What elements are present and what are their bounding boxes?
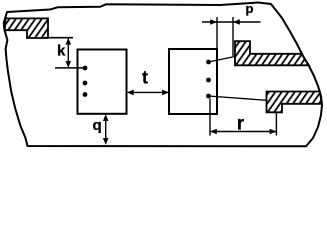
k leader line to pad dot <box>55 67 86 69</box>
leader from right pad bottom dot to lower land <box>209 96 268 100</box>
r right extension line <box>275 113 277 136</box>
left pad box <box>78 50 127 114</box>
p right extension line <box>232 17 234 56</box>
top-left hatched land (section) <box>5 18 48 38</box>
dimension t arrow line <box>128 91 168 93</box>
dimension q arrow line <box>105 116 107 144</box>
svg-text:t: t <box>142 68 148 88</box>
k arrowhead down <box>66 61 72 68</box>
r arrowhead right <box>270 129 277 135</box>
svg-text:p: p <box>246 1 254 16</box>
p arrowhead pointing right <box>210 19 217 25</box>
left pad dot 1 <box>83 66 88 71</box>
right pad box <box>169 49 217 114</box>
right pad dot 3 <box>206 94 211 99</box>
upper-right hatched land (section) <box>235 41 309 65</box>
left pad dot 3 <box>83 92 88 97</box>
k arrowhead up <box>66 38 72 45</box>
leader from right pad top dot to land <box>209 56 237 62</box>
dimension p line <box>202 21 261 23</box>
left pad dot 2 <box>83 81 88 86</box>
dimension r line <box>210 131 276 133</box>
right pad dot 2 <box>206 78 211 83</box>
p left extension line (box edge extended up) <box>216 17 218 49</box>
right pad dot 1 <box>206 60 211 65</box>
q arrowhead up <box>103 114 109 121</box>
r left extension line <box>209 99 211 136</box>
p arrowhead pointing left <box>233 19 240 25</box>
k reference line (land bottom edge extension) <box>44 37 73 39</box>
svg-text:r: r <box>237 114 245 135</box>
t arrowhead right <box>162 90 169 96</box>
svg-text:k: k <box>57 42 66 59</box>
lower-right hatched land (section) <box>267 92 322 113</box>
q arrowhead down <box>103 138 109 145</box>
r arrowhead left <box>210 129 217 135</box>
t arrowhead left <box>127 90 134 96</box>
outer workpiece boundary <box>4 3 322 147</box>
dimension k arrow line <box>67 39 69 67</box>
svg-text:q: q <box>93 117 102 134</box>
